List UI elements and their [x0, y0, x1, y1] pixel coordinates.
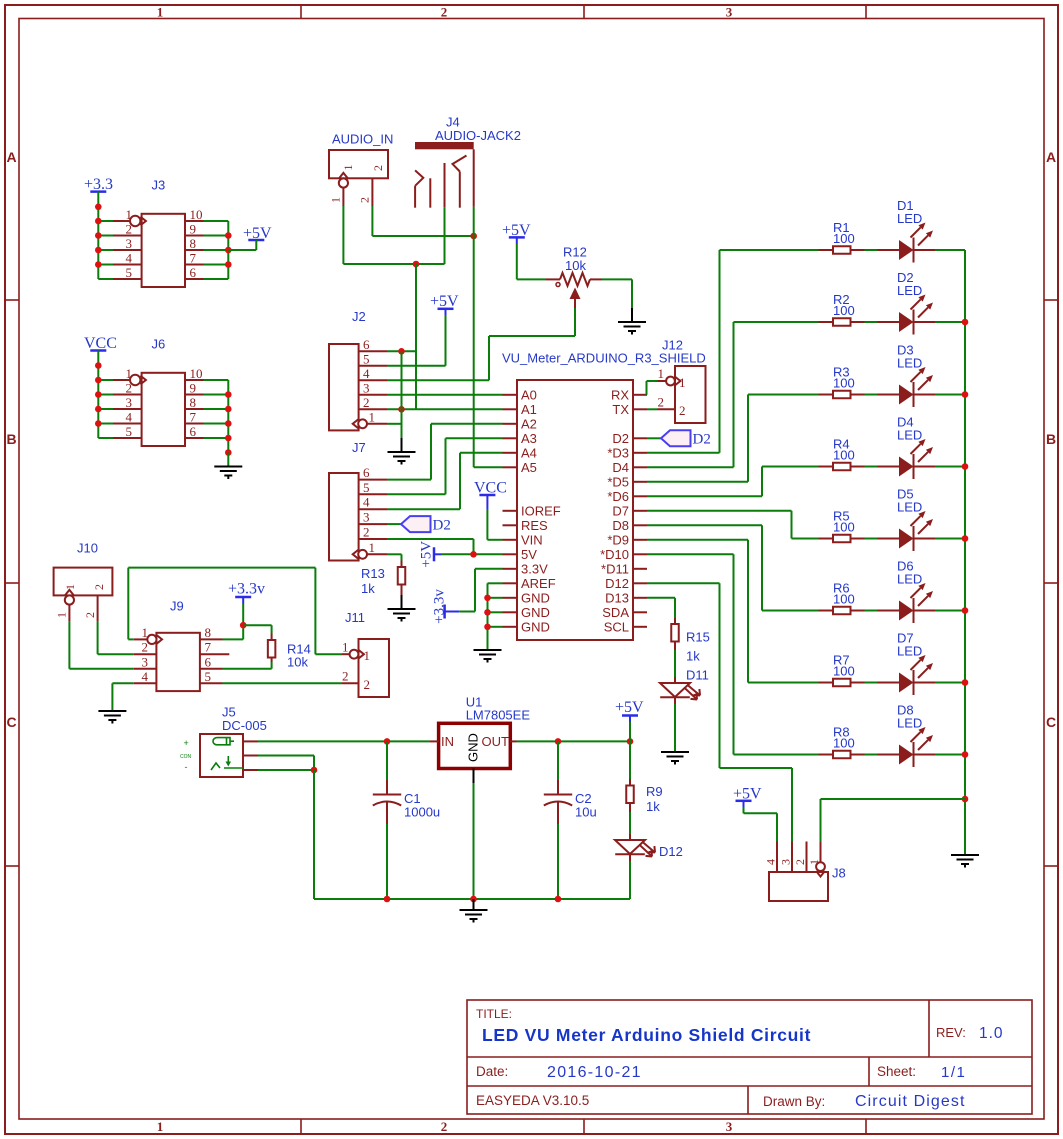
svg-text:2: 2: [441, 5, 448, 20]
svg-text:A5: A5: [521, 460, 537, 475]
svg-text:2: 2: [679, 403, 686, 418]
svg-text:100: 100: [833, 303, 855, 318]
svg-text:J7: J7: [352, 440, 366, 455]
svg-text:6: 6: [363, 465, 370, 480]
svg-text:4: 4: [363, 495, 370, 510]
svg-text:GND: GND: [521, 619, 550, 634]
svg-text:SCL: SCL: [604, 619, 629, 634]
svg-text:A2: A2: [521, 416, 537, 431]
svg-text:*D11: *D11: [601, 561, 629, 576]
svg-text:REV:: REV:: [936, 1025, 966, 1040]
svg-text:1: 1: [341, 165, 355, 171]
svg-text:4: 4: [764, 859, 778, 865]
svg-text:LED: LED: [897, 572, 922, 587]
svg-text:J10: J10: [77, 541, 98, 556]
svg-text:VIN: VIN: [521, 532, 543, 547]
svg-text:1: 1: [142, 625, 149, 640]
svg-text:1.0: 1.0: [979, 1025, 1004, 1042]
svg-text:6: 6: [205, 654, 212, 669]
svg-text:LED: LED: [897, 500, 922, 515]
svg-text:5: 5: [363, 351, 370, 366]
svg-text:+: +: [184, 738, 189, 748]
svg-text:LED: LED: [897, 211, 922, 226]
svg-text:7: 7: [205, 640, 212, 655]
svg-text:2: 2: [126, 222, 133, 237]
svg-text:IOREF: IOREF: [521, 503, 561, 518]
svg-text:10: 10: [190, 366, 203, 381]
svg-text:+3.3v: +3.3v: [228, 581, 265, 598]
svg-text:Drawn By:: Drawn By:: [763, 1094, 825, 1109]
svg-text:2: 2: [363, 395, 370, 410]
svg-text:R15: R15: [686, 630, 710, 645]
svg-text:SDA: SDA: [602, 605, 629, 620]
svg-text:4: 4: [363, 366, 370, 381]
svg-text:Circuit Digest: Circuit Digest: [855, 1093, 966, 1110]
svg-text:LED VU Meter Arduino Shield Ci: LED VU Meter Arduino Shield Circuit: [482, 1025, 811, 1045]
svg-text:GND: GND: [521, 590, 550, 605]
svg-text:5: 5: [363, 480, 370, 495]
svg-text:2: 2: [126, 381, 133, 396]
svg-text:2: 2: [441, 1119, 448, 1134]
svg-text:*D6: *D6: [607, 489, 629, 504]
svg-text:1/1: 1/1: [941, 1064, 966, 1081]
svg-text:Sheet:: Sheet:: [877, 1064, 916, 1079]
svg-text:4: 4: [126, 410, 133, 425]
svg-text:D2: D2: [612, 431, 629, 446]
svg-text:8: 8: [205, 625, 212, 640]
svg-text:1: 1: [364, 648, 371, 663]
svg-text:D12: D12: [659, 844, 683, 859]
svg-text:1: 1: [126, 366, 133, 381]
svg-text:J8: J8: [832, 866, 846, 881]
svg-text:1: 1: [157, 1119, 164, 1134]
svg-text:3: 3: [726, 1119, 733, 1134]
svg-text:1: 1: [55, 612, 69, 618]
svg-text:8: 8: [190, 236, 197, 251]
svg-text:GND: GND: [521, 605, 550, 620]
svg-text:J3: J3: [152, 178, 166, 193]
svg-text:C: C: [6, 714, 16, 730]
svg-text:A3: A3: [521, 431, 537, 446]
svg-text:3: 3: [363, 510, 370, 525]
svg-text:GND: GND: [466, 733, 481, 762]
svg-text:10: 10: [190, 207, 203, 222]
svg-text:100: 100: [833, 664, 855, 679]
svg-text:RX: RX: [611, 387, 629, 402]
svg-text:RES: RES: [521, 518, 548, 533]
svg-text:+5V: +5V: [615, 699, 644, 716]
svg-text:100: 100: [833, 376, 855, 391]
svg-text:5V: 5V: [521, 547, 537, 562]
svg-text:D2: D2: [693, 432, 711, 448]
svg-text:Date:: Date:: [476, 1064, 508, 1079]
svg-text:C: C: [1046, 714, 1056, 730]
svg-text:LED: LED: [897, 428, 922, 443]
svg-text:AREF: AREF: [521, 576, 556, 591]
svg-text:LM7805EE: LM7805EE: [466, 708, 531, 723]
svg-text:1: 1: [329, 197, 343, 203]
svg-text:*D9: *D9: [607, 532, 629, 547]
svg-text:3: 3: [779, 859, 793, 865]
svg-text:3: 3: [726, 5, 733, 20]
svg-text:D13: D13: [605, 590, 629, 605]
svg-text:1: 1: [126, 207, 133, 222]
svg-text:1: 1: [157, 5, 164, 20]
svg-text:10k: 10k: [565, 258, 586, 273]
svg-text:3: 3: [363, 380, 370, 395]
svg-text:2016-10-21: 2016-10-21: [547, 1064, 642, 1081]
svg-text:*D10: *D10: [600, 547, 629, 562]
svg-text:3: 3: [142, 654, 149, 669]
svg-text:AUDIO-JACK2: AUDIO-JACK2: [435, 128, 521, 143]
svg-text:+5V: +5V: [430, 293, 459, 310]
svg-text:8: 8: [190, 395, 197, 410]
svg-text:9: 9: [190, 381, 197, 396]
svg-text:CON: CON: [180, 754, 192, 760]
svg-text:*D5: *D5: [607, 474, 629, 489]
svg-text:4: 4: [142, 669, 149, 684]
svg-text:3.3V: 3.3V: [521, 561, 548, 576]
svg-text:J6: J6: [152, 337, 166, 352]
svg-text:2: 2: [83, 612, 97, 618]
svg-text:10k: 10k: [287, 655, 308, 670]
svg-text:7: 7: [190, 251, 197, 266]
svg-text:LED: LED: [897, 716, 922, 731]
svg-text:100: 100: [833, 231, 855, 246]
svg-text:2: 2: [658, 395, 665, 410]
svg-text:1: 1: [369, 409, 376, 424]
svg-text:D8: D8: [612, 518, 629, 533]
svg-text:EASYEDA V3.10.5: EASYEDA V3.10.5: [476, 1093, 589, 1108]
svg-text:LED: LED: [897, 283, 922, 298]
svg-text:A0: A0: [521, 387, 537, 402]
svg-text:1k: 1k: [361, 581, 375, 596]
svg-text:1: 1: [807, 859, 821, 865]
svg-text:9: 9: [190, 222, 197, 237]
svg-text:1: 1: [369, 540, 376, 555]
svg-text:R13: R13: [361, 566, 385, 581]
svg-text:1000u: 1000u: [404, 805, 440, 820]
svg-text:D7: D7: [612, 503, 629, 518]
svg-text:*D3: *D3: [607, 445, 629, 460]
svg-text:6: 6: [363, 337, 370, 352]
svg-text:D12: D12: [605, 576, 629, 591]
svg-text:R9: R9: [646, 784, 663, 799]
svg-text:1k: 1k: [646, 799, 660, 814]
svg-text:TITLE:: TITLE:: [476, 1007, 512, 1021]
svg-text:5: 5: [205, 669, 212, 684]
svg-text:A: A: [6, 149, 16, 165]
svg-text:OUT: OUT: [482, 734, 510, 749]
svg-text:2: 2: [364, 677, 371, 692]
svg-text:1: 1: [342, 640, 349, 655]
svg-text:10u: 10u: [575, 805, 597, 820]
svg-text:A4: A4: [521, 445, 537, 460]
svg-text:J9: J9: [170, 599, 184, 614]
svg-text:J11: J11: [345, 610, 365, 625]
svg-text:2: 2: [358, 197, 372, 203]
svg-text:B: B: [1046, 431, 1056, 447]
svg-text:TX: TX: [612, 402, 629, 417]
svg-text:D4: D4: [612, 460, 629, 475]
svg-text:2: 2: [363, 525, 370, 540]
svg-text:5: 5: [126, 265, 133, 280]
svg-text:100: 100: [833, 448, 855, 463]
svg-text:VU_Meter_ARDUINO_R3_SHIELD: VU_Meter_ARDUINO_R3_SHIELD: [502, 351, 706, 366]
svg-text:IN: IN: [441, 734, 454, 749]
svg-text:D11: D11: [686, 668, 709, 683]
svg-text:A: A: [1046, 149, 1056, 165]
svg-text:2: 2: [342, 669, 349, 684]
svg-text:A1: A1: [521, 402, 537, 417]
svg-text:J2: J2: [352, 309, 366, 324]
svg-text:3: 3: [126, 236, 133, 251]
svg-text:AUDIO_IN: AUDIO_IN: [332, 132, 393, 147]
svg-text:5: 5: [126, 424, 133, 439]
svg-text:2: 2: [793, 859, 807, 865]
svg-text:DC-005: DC-005: [222, 718, 267, 733]
svg-text:100: 100: [833, 592, 855, 607]
svg-text:1: 1: [679, 375, 686, 390]
svg-text:+5V: +5V: [419, 541, 435, 568]
svg-text:2: 2: [371, 165, 385, 171]
svg-text:4: 4: [126, 251, 133, 266]
svg-text:100: 100: [833, 520, 855, 535]
svg-text:B: B: [6, 431, 16, 447]
svg-text:2: 2: [142, 640, 149, 655]
svg-text:-: -: [185, 762, 188, 772]
svg-text:LED: LED: [897, 356, 922, 371]
svg-text:6: 6: [190, 424, 197, 439]
svg-text:6: 6: [190, 265, 197, 280]
svg-text:7: 7: [190, 410, 197, 425]
svg-text:1: 1: [658, 366, 665, 381]
svg-text:3: 3: [126, 395, 133, 410]
svg-text:LED: LED: [897, 644, 922, 659]
svg-text:100: 100: [833, 736, 855, 751]
svg-text:1k: 1k: [686, 649, 700, 664]
svg-text:2: 2: [92, 584, 106, 590]
svg-text:1: 1: [63, 584, 77, 590]
svg-text:D2: D2: [433, 518, 451, 534]
svg-text:J12: J12: [662, 338, 683, 353]
